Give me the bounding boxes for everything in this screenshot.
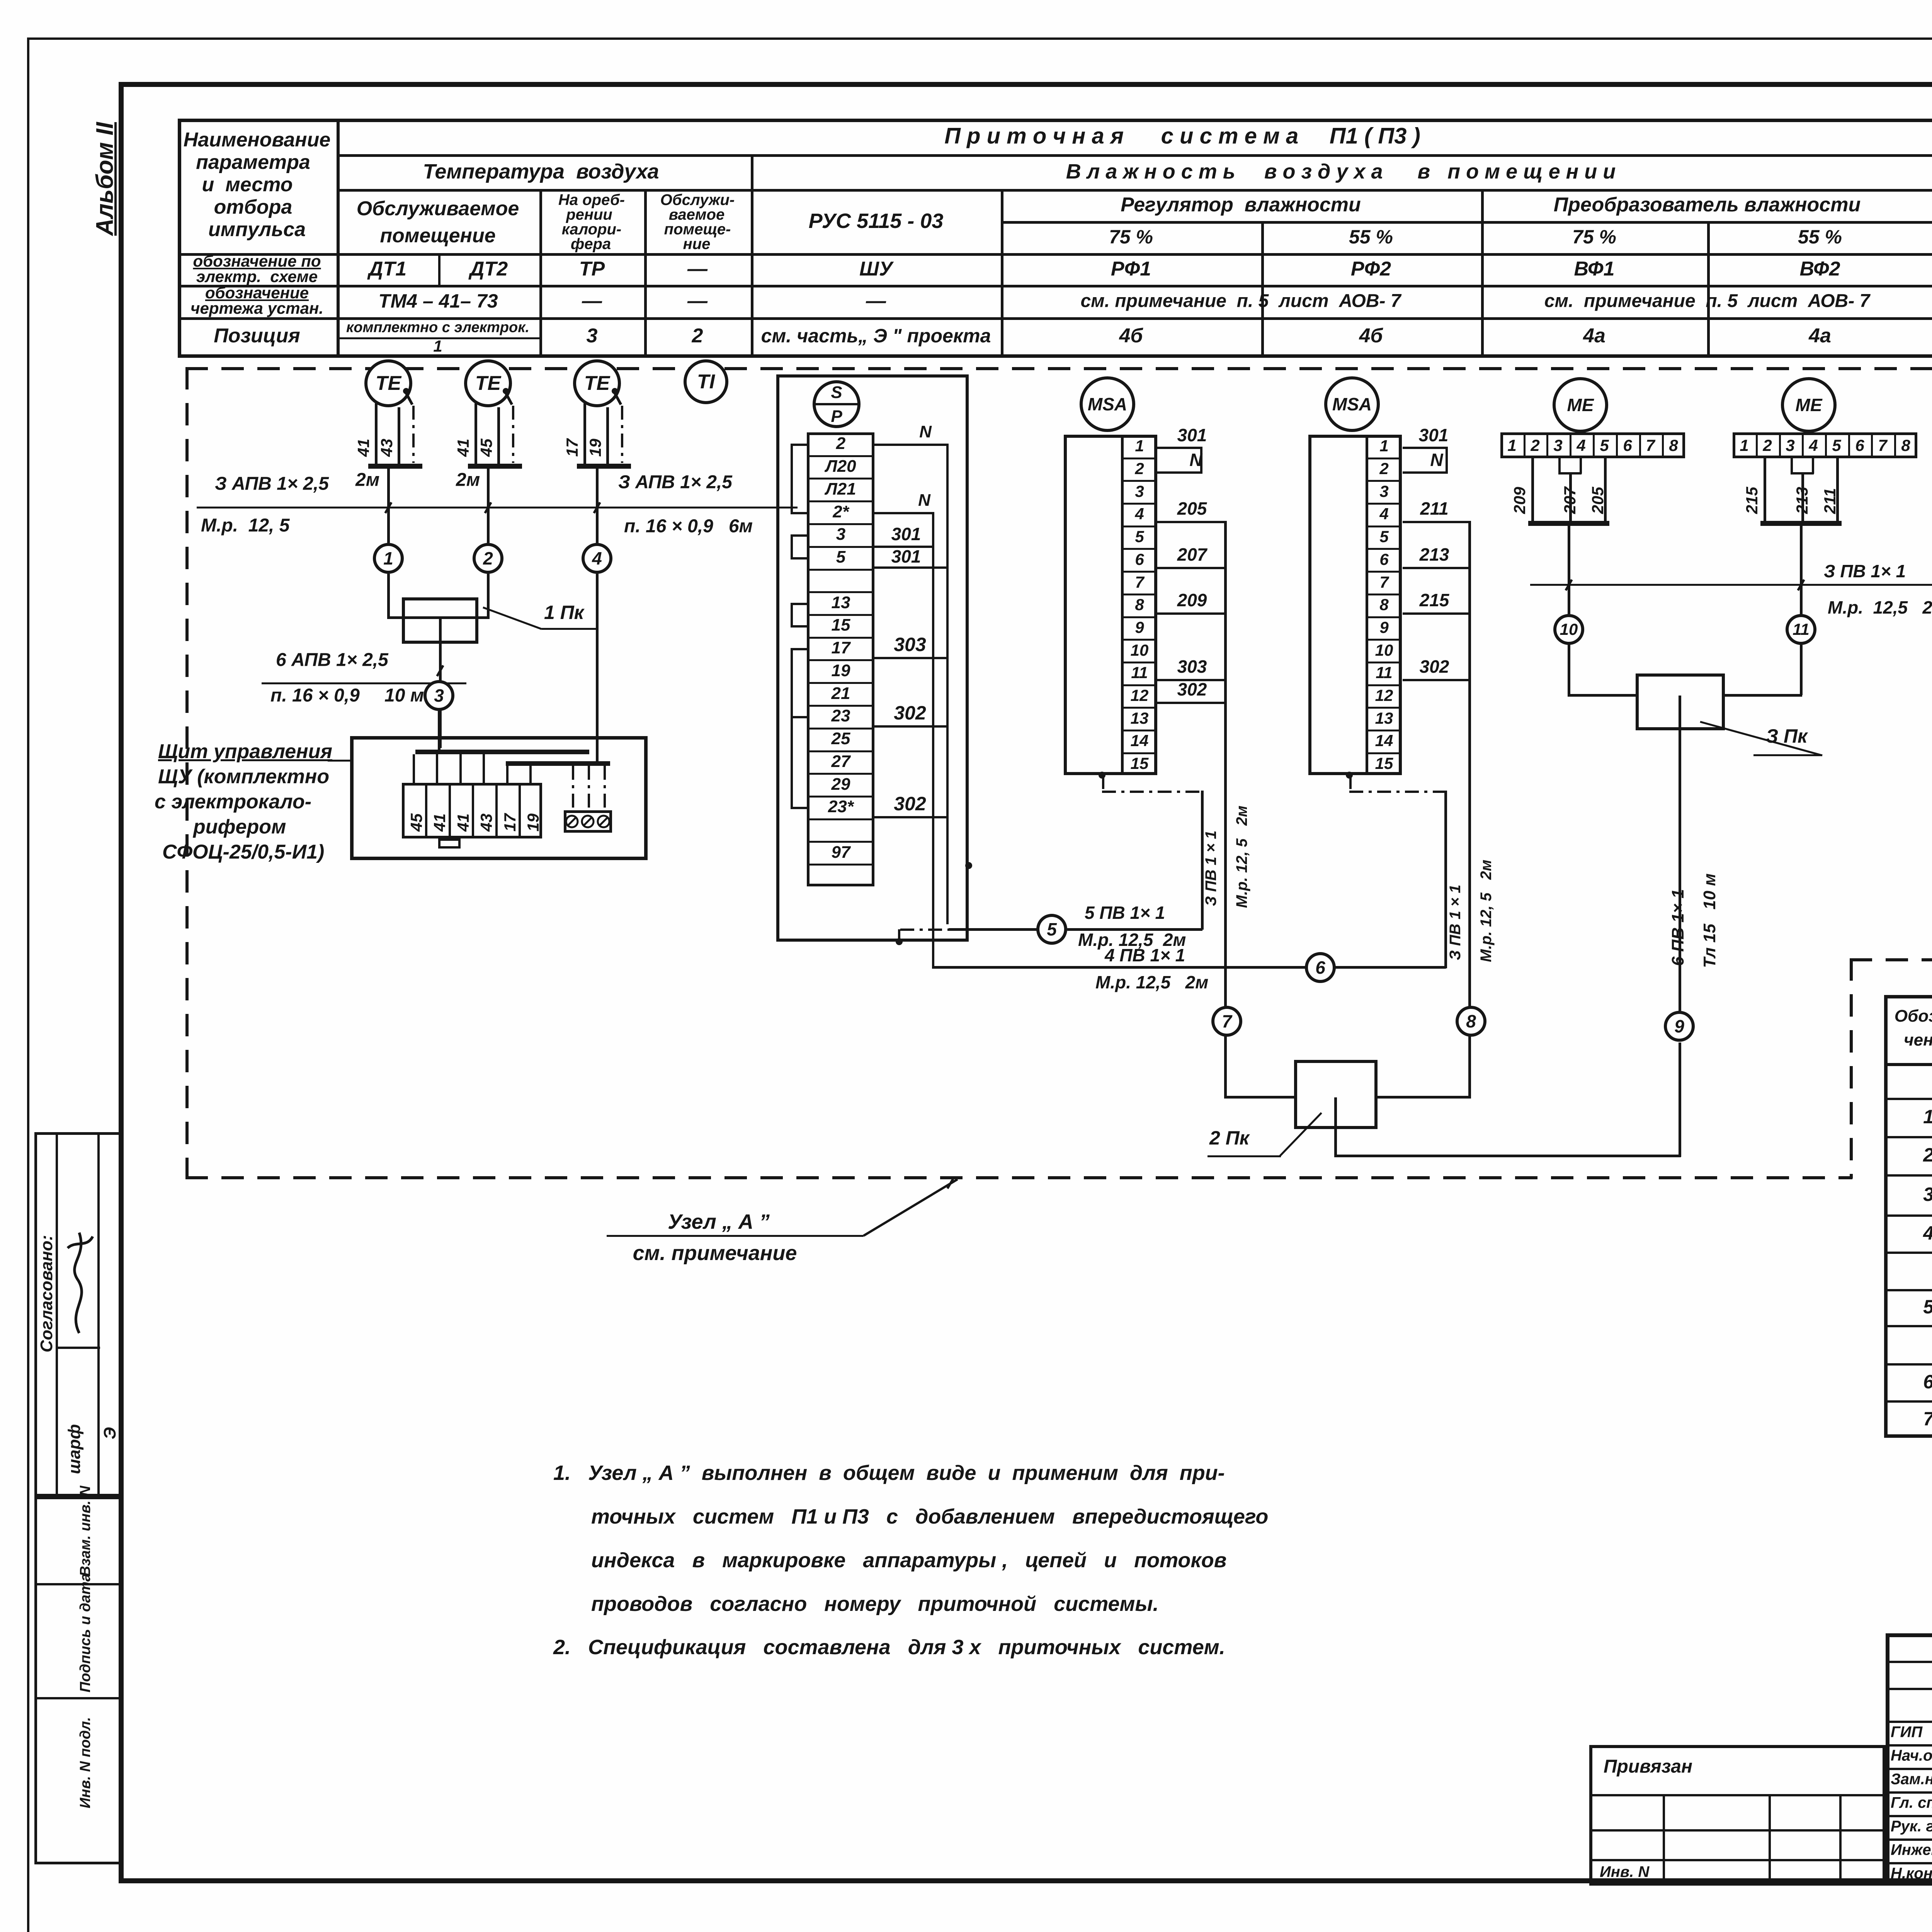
- S/P wire 301 a: [874, 546, 932, 548]
- circle S over P: [813, 380, 861, 428]
- junction circle 4: [582, 543, 612, 574]
- wire 7 down to 2PK: [1224, 1037, 1227, 1099]
- humidity sensor ME-1 legs: [1531, 458, 1534, 522]
- S/P wire N mid: [874, 512, 933, 514]
- title block outer: [1886, 1633, 1932, 1886]
- MSA1 bottom dash-dot: [1102, 775, 1104, 792]
- temp sensor TE 41/45 wire labels: [454, 439, 473, 457]
- label 3PK with leader: [1696, 718, 1826, 759]
- header: RUS 5115-03: [809, 209, 944, 233]
- junction circle 5: [1036, 914, 1067, 945]
- cable label 3PV1x1 msa1: [1202, 830, 1220, 906]
- MSA2 collector wire down: [1468, 521, 1471, 1098]
- header: serviced room 2: [660, 192, 735, 209]
- label 1PK with leader: [544, 601, 584, 624]
- temp sensor TE 41/43 wire labels: [354, 439, 373, 457]
- temp sensor TE 17/19: [573, 359, 621, 407]
- wire ME2 down: [1800, 526, 1803, 614]
- ShchU bus 1: [415, 750, 589, 754]
- MSA2 bottom dot: [1346, 772, 1353, 779]
- wire TE2 down: [487, 469, 490, 543]
- label 6APV 1x2,5: [276, 650, 388, 671]
- wire 3 to panel: [438, 711, 440, 752]
- wire 11 to 3PK: [1800, 645, 1803, 695]
- specification table: [1884, 995, 1932, 1438]
- label 5PV1x1: [1085, 902, 1165, 923]
- header: serviced room: [357, 197, 519, 220]
- row label: position: [214, 324, 300, 347]
- temp sensor TE 41/43: [364, 359, 412, 407]
- row: positions: [346, 320, 529, 336]
- cable label 6PV1x1 9: [1668, 889, 1688, 966]
- wires bus2 to terminals: [506, 766, 509, 784]
- wire 4 down to panel: [596, 574, 599, 763]
- row label: designation electric scheme: [193, 252, 321, 270]
- junction circle 6: [1305, 952, 1336, 983]
- cable label 3PV1x1 msa2: [1447, 884, 1464, 960]
- junction circle 11: [1786, 614, 1816, 645]
- terminal strip S/P: [807, 432, 874, 886]
- humidity sensor ME-2: [1781, 377, 1837, 433]
- pull box 1PK: [402, 597, 478, 644]
- notes text: [553, 1461, 1225, 1485]
- header: humidity regulator: [1121, 193, 1361, 216]
- junction circle 2: [473, 543, 503, 574]
- label 2PK with leader: [1209, 1127, 1249, 1149]
- wires bus1 to terminals: [413, 754, 415, 784]
- wire 2PK down right: [1334, 1129, 1337, 1157]
- jumper brackets left: [791, 444, 793, 512]
- dimension line ME wires: [1530, 584, 1932, 586]
- row label: installation drawing designation: [205, 284, 309, 302]
- S/P vertical bus A: [946, 444, 949, 924]
- header: on heater fins: [558, 192, 625, 209]
- S/P right edge dot: [965, 862, 972, 869]
- approval strip Soglasovano: [34, 1132, 121, 1497]
- label 3PV 1x1 ME: [1824, 561, 1906, 582]
- S/P wire N top: [874, 444, 948, 446]
- inv number row label: [1890, 1872, 1891, 1872]
- temp sensor TE 41/43 base bar: [368, 464, 422, 469]
- wire MSA2 to junction6 vertical: [1444, 791, 1447, 968]
- ShchU bus 2: [506, 761, 610, 766]
- header cell: parameter name: [184, 128, 331, 151]
- S/P wire 301 b: [874, 566, 947, 569]
- MSA2 bottom dash-dot: [1349, 775, 1352, 792]
- MSA1 collector wire down: [1224, 521, 1227, 1098]
- MSA1 bottom dot: [1099, 772, 1105, 779]
- control panel ShchU box P1: [350, 736, 648, 860]
- earth terminal block P1: [564, 810, 612, 833]
- label control panel ShchU: [158, 740, 332, 763]
- wire TE3 down: [596, 469, 599, 543]
- S/P vertical bus B: [932, 512, 934, 967]
- row: drawing designations: [378, 290, 498, 312]
- temp sensor TE 17/19 base bar: [577, 464, 631, 469]
- inventory strip: [34, 1497, 121, 1864]
- S/P wire 302 b: [874, 816, 947, 818]
- spec table headers: [1895, 1007, 1932, 1026]
- junction circle 8: [1456, 1006, 1486, 1037]
- pull box 3PK tee: [1679, 696, 1681, 730]
- junction circle 9: [1664, 1011, 1695, 1042]
- pull box 1PK tee: [439, 618, 442, 644]
- room panel S/P outer box: [776, 374, 969, 942]
- wire up to junction 9: [1679, 1043, 1681, 1157]
- humidity sensor ME-1 leg labels: [1510, 487, 1529, 514]
- MSA1 right ladder wires: [1157, 447, 1202, 449]
- terminal labels 45 41 41 43 17 19: [407, 813, 426, 832]
- pull box 2PK: [1294, 1060, 1378, 1129]
- cable label 3APV 1x2,5 left: [215, 473, 329, 495]
- wire 10 to 3PK: [1568, 645, 1570, 695]
- humidity sensor ME-1: [1553, 377, 1608, 433]
- vertical label Album II: [91, 122, 119, 236]
- dimension line P1 sensors: [197, 507, 798, 509]
- wire to junction 5: [949, 928, 1037, 931]
- wire 9 up to 3PK: [1679, 730, 1681, 1011]
- dashed boundary of node A: [185, 367, 1932, 370]
- thermometer TI local: [684, 359, 728, 404]
- dash-dot wires to earth block: [572, 766, 574, 810]
- temp sensor TE 17/19 wire labels: [563, 439, 582, 457]
- wire 1PK down: [439, 644, 442, 748]
- S/P wire 303: [874, 657, 947, 659]
- junction circle 1: [373, 543, 404, 574]
- node A label: [668, 1210, 770, 1234]
- junction circle 7: [1211, 1006, 1242, 1037]
- temp sensor TE 41/45 base bar: [468, 464, 522, 469]
- temp sensor TE 41/45: [464, 359, 512, 407]
- row: designations: [369, 257, 406, 281]
- title block role labels: [1891, 1724, 1922, 1741]
- junction circle 3: [423, 680, 454, 711]
- humidity sensor ME-1 base bar: [1528, 521, 1609, 526]
- pull box 2PK tee: [1334, 1097, 1337, 1129]
- terminal block P1: [402, 783, 542, 838]
- cable label 3APV right: [618, 472, 732, 493]
- wire 2 to box: [487, 574, 490, 618]
- humidity sensor ME-2 leg labels: [1743, 487, 1761, 514]
- MSA2 right ladder wires: [1403, 447, 1448, 449]
- table header texts: [944, 123, 1420, 149]
- wire 5PV to MSA1: [1067, 928, 1202, 931]
- controller MSA-2: [1324, 376, 1380, 432]
- top parameter table grid: [178, 119, 1932, 122]
- wire TE1 down: [387, 469, 390, 543]
- wire 4PV from S/P: [932, 966, 1446, 969]
- terminal block tab: [438, 838, 461, 849]
- junction circle 10: [1553, 614, 1584, 645]
- header: humidity transducer: [1554, 193, 1861, 216]
- humidity sensor ME-2 legs: [1764, 458, 1766, 522]
- privyazan block: [1589, 1745, 1886, 1886]
- wire 8 down to 2PK: [1468, 1037, 1471, 1099]
- approval signature: [60, 1225, 97, 1345]
- S/P wire 302 a: [874, 725, 947, 728]
- controller MSA-1: [1080, 376, 1135, 432]
- wire 1 to box: [387, 574, 390, 618]
- pull box 3PK: [1636, 673, 1725, 730]
- wire MSA1 to junction5 vertical: [1201, 791, 1204, 930]
- S/P bottom junction dot: [896, 938, 903, 945]
- title block left rows: [1886, 1661, 1932, 1663]
- humidity sensor ME-2 base bar: [1760, 521, 1842, 526]
- wire ME1 down: [1568, 526, 1570, 614]
- label 4PV1x1: [1105, 945, 1185, 966]
